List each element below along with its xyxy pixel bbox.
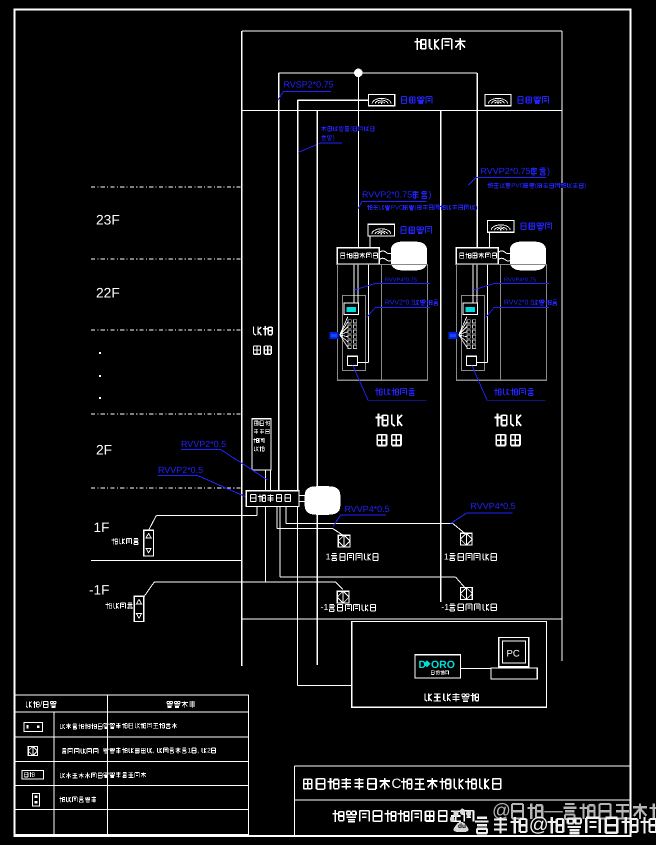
card reader display 2 <box>463 303 478 315</box>
wire controller to display a 1 <box>353 264 355 302</box>
label RVVP2*0.75(双绞) shaft2 <box>468 166 550 185</box>
intercom interface box 可视对讲信号 <box>252 419 271 470</box>
legend desc row2 <box>104 747 216 754</box>
svg-text:): ) <box>547 166 550 176</box>
intercom cloud 1 <box>391 242 426 270</box>
wire linkage drop x265 <box>264 507 266 582</box>
label 无线网络 AP2 <box>518 97 549 104</box>
svg-text:1: 1 <box>326 551 331 561</box>
legend name 梯控二代读卡器 <box>60 724 102 730</box>
wire hall call -1F <box>144 582 343 596</box>
wire linkage to management center <box>297 507 351 686</box>
floor line (dash-dot) y488 <box>91 487 242 489</box>
door detector C (1F shaft2) <box>460 533 472 545</box>
wire: wifi AP1 feed <box>298 99 369 101</box>
legend icon detector <box>28 746 37 755</box>
label 无线网络 AP1 <box>401 97 432 104</box>
wire linkage to 1F call <box>256 507 258 516</box>
svg-text:RVVP4*0.5: RVVP4*0.5 <box>471 501 516 511</box>
stub linkage-cloud a <box>299 494 305 496</box>
label 1层开门检测器 C <box>444 551 496 561</box>
svg-text:RVV2*0.5: RVV2*0.5 <box>385 299 415 306</box>
note 敷设阻燃PVC线槽 shaft2 <box>488 182 587 189</box>
svg-text:PC: PC <box>507 649 520 660</box>
svg-text:-1: -1 <box>441 602 449 612</box>
label RVVP2*0.5 upper <box>181 439 268 480</box>
floor line 1F (solid) <box>91 559 242 561</box>
svg-text:RVSP2*0.75: RVSP2*0.75 <box>284 80 334 90</box>
svg-text:RVVP4*0.75: RVVP4*0.75 <box>504 278 536 284</box>
svg-text:,: , <box>153 747 155 754</box>
intercom cloud 2 <box>510 242 545 270</box>
terminal strip 1 <box>348 320 357 349</box>
enclosure right edge (shaft 2 right wall) <box>561 31 563 661</box>
wavy link controller-cloud 1 a <box>379 251 392 254</box>
label RVVP4*0.5 shaft1 <box>333 504 389 526</box>
label 电梯轿机盒 2 <box>472 365 546 400</box>
label 电梯轿机盒 1 <box>353 365 427 400</box>
floor line (dash-dot) y414 <box>91 413 242 415</box>
wifi AP1 (machine room) <box>369 95 395 106</box>
label RVSP2*0.75 <box>278 80 334 101</box>
wire: left bus drop to linkage unit <box>278 73 280 491</box>
enclosure left edge <box>241 31 243 666</box>
watermark baidu paw logo <box>450 809 471 832</box>
controller U1 多奥主控制器 <box>337 248 379 265</box>
note 敷设阻燃PVC线槽 shaft1 <box>367 204 477 211</box>
wire interface to linkage a <box>264 470 266 491</box>
wire: riser to controller 1 <box>357 73 359 248</box>
label 电梯 井道 shaft2 <box>494 414 521 446</box>
shaft 2 car divider <box>499 264 501 380</box>
label 电梯机房 (elevator machine room) <box>414 38 465 50</box>
svg-text:1: 1 <box>188 747 192 754</box>
wire hall call 1F <box>149 516 258 531</box>
svg-text:RVVP2*0.5: RVVP2*0.5 <box>181 439 226 449</box>
legend name 电梯外呼按钮 <box>59 797 96 803</box>
label 弱电 井道 (weak current shaft) <box>254 326 273 354</box>
shaft 2 equipment panel <box>461 296 484 371</box>
linkage unit 多奥联动器 <box>246 491 299 507</box>
title block top rule <box>295 765 631 767</box>
label 物业管理中心 <box>425 693 479 701</box>
svg-text:RVVP2*0.75(: RVVP2*0.75( <box>362 190 415 200</box>
wire fan to terminals 2 <box>459 317 467 348</box>
svg-text:PVC: PVC <box>391 204 404 211</box>
wire linkage to detector D <box>280 507 465 588</box>
legend icon card reader <box>24 723 43 732</box>
label 电梯外呼 -1F <box>106 603 133 609</box>
legend name 红外检测探头 <box>62 748 98 753</box>
svg-text:-1: -1 <box>321 602 329 612</box>
junction dot <box>354 69 363 78</box>
label RVV2*0.5阻燃电缆 1 <box>367 299 438 317</box>
floor line (dash-dot) y330 <box>91 329 242 331</box>
machine room / shaft enclosure top edge <box>242 30 562 32</box>
svg-text:RVVP4*0.75: RVVP4*0.75 <box>385 278 417 284</box>
wire linkage to detector A <box>277 507 343 536</box>
door detector D (-1F shaft2) <box>460 588 472 600</box>
PC system unit <box>491 668 537 679</box>
wire controller to display b 1 <box>357 264 359 302</box>
svg-text:23F: 23F <box>96 211 120 227</box>
legend table frame <box>15 695 249 835</box>
svg-text:PVC: PVC <box>511 182 524 189</box>
wire logo box to PC <box>461 667 491 669</box>
svg-text:-1F: -1F <box>89 583 109 598</box>
label RVVP4*0.5 shaft2 <box>451 501 516 523</box>
wire controller to display b 2 <box>476 264 478 302</box>
wire: top network bus <box>279 72 478 74</box>
company 深圳市多奥科技有限公司 <box>332 810 473 822</box>
legend icon controller <box>22 770 43 779</box>
linkage cloud <box>305 487 340 515</box>
legend desc row1 <box>104 723 177 729</box>
svg-text:22F: 22F <box>96 284 120 300</box>
svg-text:): ) <box>429 190 432 200</box>
wire controller to display a 2 <box>472 264 474 302</box>
connector block (blue) 1 <box>329 332 338 339</box>
legend icon call button <box>33 793 40 805</box>
title block left edge <box>294 766 296 836</box>
car intercom box 1 <box>347 356 357 365</box>
DUOAO logo box <box>415 655 461 678</box>
label RVVP2*0.5 lower <box>158 465 246 497</box>
label RVV2*0.5阻燃电缆 2 <box>486 299 557 317</box>
svg-text:1: 1 <box>444 551 449 561</box>
wire wifi to controller 2 <box>488 232 490 248</box>
shaft 1 car box <box>337 264 427 380</box>
wifi AP shaft2 <box>487 220 514 232</box>
management center box 物业管理中心 <box>352 622 547 708</box>
title 可视对讲联动型C卡智能电梯系统图 <box>304 776 501 791</box>
svg-text:2F: 2F <box>96 441 112 457</box>
shaft 1 equipment panel <box>342 296 365 371</box>
floor line (dash-dot) y259 <box>91 258 242 260</box>
label RVVP4*0.75 2 <box>473 278 549 291</box>
shaft pit floor line <box>242 618 562 620</box>
svg-text:RVVP2*0.5: RVVP2*0.5 <box>158 465 203 475</box>
svg-text:RVV2*0.5: RVV2*0.5 <box>504 299 534 306</box>
floor label 2F <box>96 441 112 457</box>
hall call button 1F <box>144 530 154 556</box>
wall: shaft area left <box>316 111 318 666</box>
shaft 1 car divider <box>380 264 382 380</box>
legend header 样号/图例 <box>26 700 56 709</box>
svg-text:ORO: ORO <box>431 659 455 671</box>
svg-text:,: , <box>197 747 199 754</box>
svg-text:): ) <box>333 135 335 142</box>
wavy link controller-cloud 2 b <box>498 258 511 261</box>
stub linkage-cloud b <box>299 501 305 503</box>
svg-text:): ) <box>584 182 586 189</box>
svg-text:RVVP4*0.5: RVVP4*0.5 <box>345 504 390 514</box>
card reader display 1 <box>344 303 359 315</box>
wavy link controller-cloud 1 b <box>379 258 392 261</box>
wavy link controller-cloud 2 a <box>498 251 511 254</box>
wall: between shafts <box>440 111 442 603</box>
watermark 搜狐号@深圳市多奥科技 (white) <box>475 814 656 836</box>
svg-text:C: C <box>392 776 402 791</box>
wire controller to car box 2 <box>476 264 487 362</box>
door detector B (-1F shaft1) <box>337 591 349 603</box>
note 就近接网线(或运营商 上网) <box>298 126 374 153</box>
floor label 1F <box>94 520 110 535</box>
label -1层开门检测器 B <box>321 602 376 612</box>
floor label -1F <box>89 583 109 598</box>
wire wifi to controller 1 <box>369 236 371 248</box>
title block mid rule <box>295 799 631 801</box>
wire fan to terminals 1 <box>340 317 348 348</box>
label RVVP2*0.75(双绞) shaft1 <box>358 190 432 209</box>
connector block (blue) 2 <box>448 332 457 339</box>
wire controller to car box 1 <box>357 264 368 362</box>
legend row rules <box>15 737 249 810</box>
legend header 安装位置 <box>167 701 195 708</box>
floor label 23F <box>96 211 120 227</box>
svg-text:1F: 1F <box>94 520 110 535</box>
label 电梯 井道 shaft1 <box>375 414 402 446</box>
door detector A (1F shaft1) <box>338 535 350 547</box>
label 无线网络 shaft1 <box>401 227 432 234</box>
wire: drop to linkage unit (wifi feed) <box>297 100 299 491</box>
label 电梯外呼 1F <box>112 538 139 544</box>
terminal strip 2 <box>467 320 476 349</box>
svg-text:@: @ <box>529 814 549 836</box>
machine room floor line <box>242 110 562 112</box>
ellipsis dots <box>99 352 101 399</box>
label -1层开门检测器 D <box>441 602 496 612</box>
floor label 22F <box>96 284 120 300</box>
label 无线网络 shaft2 <box>521 223 552 230</box>
hall call button -1F <box>134 596 144 621</box>
label 1层开门检测器 A <box>326 551 378 561</box>
car intercom box 2 <box>466 356 476 365</box>
shaft 2 car box <box>456 264 546 380</box>
legend header rule <box>15 711 249 713</box>
controller U2 多奥主控制器 <box>456 248 498 265</box>
floor line (dash-dot) y187 <box>91 186 242 188</box>
wire interface to linkage b <box>269 470 271 491</box>
wire: riser to controller 2 <box>476 73 478 248</box>
svg-text:RVVP2*0.75(: RVVP2*0.75( <box>481 166 534 176</box>
svg-text:du: du <box>458 823 466 830</box>
wifi AP shaft1 <box>368 224 395 236</box>
legend desc row3 <box>104 772 146 778</box>
wire linkage to detector C <box>286 507 465 534</box>
svg-text:): ) <box>476 204 478 211</box>
PC monitor <box>499 638 529 667</box>
legend column rule 2 <box>107 695 109 835</box>
legend name 梯控智能控制器 <box>60 773 102 779</box>
wifi AP2 (machine room) <box>485 95 511 106</box>
watermark 多奥一卡通智能系统 (gray) <box>492 800 656 821</box>
svg-text:2: 2 <box>207 747 211 754</box>
legend column rule 1 <box>53 712 55 835</box>
label RVVP4*0.75 1 <box>354 278 430 291</box>
